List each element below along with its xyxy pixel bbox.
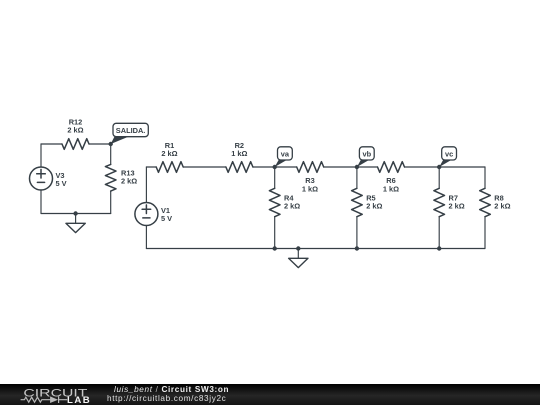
- node vc junction dot: [437, 165, 441, 169]
- label V1 value: [161, 206, 172, 223]
- label R1 value: [161, 141, 177, 158]
- voltage source V1: [135, 203, 158, 226]
- wire: main ground stub: [297, 249, 299, 259]
- label R12 value: [67, 118, 83, 135]
- wire: R7 bottom lead: [438, 217, 440, 249]
- wire: V1 top lead: [145, 167, 147, 203]
- footer credit line: [114, 385, 229, 394]
- wire: R4 top lead: [274, 167, 276, 188]
- resistor R4: [269, 188, 280, 216]
- node SALIDA flag box: [113, 123, 148, 136]
- wire: R5 top lead: [356, 167, 358, 188]
- label R6 value: [383, 176, 399, 193]
- resistor R7: [434, 188, 445, 216]
- label V3 value: [56, 171, 67, 188]
- node va junction dot: [273, 165, 277, 169]
- svg-text:LAB: LAB: [67, 395, 91, 405]
- wire: R8 bottom lead: [484, 217, 486, 249]
- resistor R8: [480, 188, 491, 216]
- wire: top rail node vc to R8 corner: [439, 166, 485, 168]
- wire: left circuit top rail right of R12: [89, 143, 111, 145]
- wire: R4 bottom lead: [274, 217, 276, 249]
- wire: main bottom rail: [146, 248, 485, 250]
- CircuitLab logo LAB text: [67, 395, 91, 405]
- wire: left circuit top-left vertical: [40, 144, 42, 167]
- wire: left circuit top rail left of R12: [41, 143, 62, 145]
- label R7 value: [449, 193, 465, 210]
- wire: top rail R3 to node vb: [324, 166, 357, 168]
- wire: top rail R6 to node vc: [405, 166, 440, 168]
- CircuitLab logo wordmark: [23, 388, 87, 400]
- wire: top rail R2 to node va: [253, 166, 275, 168]
- resistor R6: [378, 162, 405, 173]
- node vc flag box: [442, 147, 457, 160]
- resistor R13: [105, 164, 116, 191]
- junction dot: R4 bottom: [273, 246, 277, 250]
- ground (main circuit): [289, 258, 308, 267]
- node vb flag box: [359, 147, 374, 160]
- wire: top rail V1 to R1: [146, 166, 156, 168]
- junction dot: R5 bottom: [355, 246, 359, 250]
- node vb flag pointer: [357, 159, 370, 167]
- label R4 value: [284, 193, 300, 210]
- label R3 value: [302, 176, 318, 193]
- resistor R3: [297, 162, 324, 173]
- junction dot: R7 bottom: [437, 246, 441, 250]
- wire: left ground stub: [75, 214, 77, 224]
- wire: top rail node vb to R6: [357, 166, 378, 168]
- wire: R8 top lead: [484, 167, 486, 188]
- resistor R2: [226, 162, 253, 173]
- wire: V3 bottom lead: [40, 190, 42, 214]
- node SALIDA flag pointer: [111, 137, 129, 145]
- resistor R5: [352, 188, 363, 216]
- node va flag pointer: [275, 159, 288, 167]
- node va flag box: [278, 147, 293, 160]
- ground (left circuit): [66, 223, 85, 232]
- label R2 value: [231, 141, 247, 158]
- wire: top rail node va to R3: [275, 166, 297, 168]
- node vc flag pointer: [439, 159, 452, 167]
- CircuitLab logo resistor+diode glyph: [21, 396, 68, 403]
- wire: R13 bottom lead: [110, 191, 112, 213]
- wire: V1 bottom lead: [145, 226, 147, 249]
- resistor R1: [156, 162, 183, 173]
- junction dot: main ground: [296, 246, 300, 250]
- voltage source V3: [30, 167, 53, 190]
- label R5 value: [366, 193, 382, 210]
- footer url line: [107, 394, 226, 403]
- wire: R7 top lead: [438, 167, 440, 188]
- label R8 value: [494, 193, 510, 210]
- label R13 value: [121, 169, 137, 186]
- wire: R13 top lead: [110, 144, 112, 164]
- wire: R5 bottom lead: [356, 217, 358, 249]
- junction dot: left ground: [73, 211, 77, 215]
- node vb junction dot: [355, 165, 359, 169]
- wire: top rail R1 to R2: [183, 166, 226, 168]
- resistor R12: [62, 139, 89, 150]
- node SALIDA junction dot: [109, 142, 113, 146]
- wire: left circuit bottom rail: [41, 213, 111, 215]
